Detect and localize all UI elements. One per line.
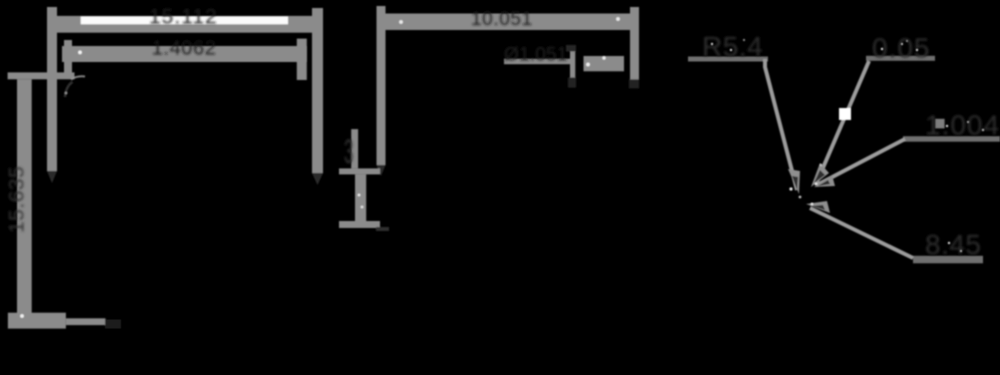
svg-text:10.051: 10.051 — [471, 9, 533, 30]
svg-text:15.635: 15.635 — [6, 166, 29, 233]
svg-text:3: 3 — [344, 133, 353, 171]
svg-text:0.05: 0.05 — [872, 33, 931, 64]
svg-text:8.45: 8.45 — [925, 229, 982, 260]
svg-text:R5.4: R5.4 — [702, 31, 763, 62]
svg-text:1.004: 1.004 — [925, 110, 1000, 141]
svg-text:Ø1.051: Ø1.051 — [504, 45, 568, 66]
svg-text:15.112: 15.112 — [149, 6, 218, 29]
svg-text:1.4062: 1.4062 — [152, 38, 217, 60]
